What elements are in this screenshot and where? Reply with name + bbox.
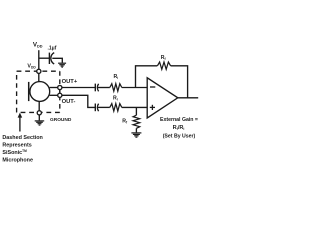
svg-text:External Gain =: External Gain = — [160, 117, 198, 123]
svg-text:Rf/Ri: Rf/Ri — [173, 125, 185, 131]
svg-text:OUT-: OUT- — [62, 99, 76, 105]
svg-text:Represents: Represents — [2, 143, 31, 149]
svg-text:Dashed Section: Dashed Section — [2, 135, 42, 141]
svg-text:Microphone: Microphone — [2, 158, 33, 164]
svg-text:(Set By User): (Set By User) — [163, 134, 196, 140]
svg-text:OUT+: OUT+ — [62, 79, 78, 85]
svg-text:GROUND: GROUND — [50, 117, 72, 123]
svg-text:.1μf: .1μf — [48, 45, 57, 51]
